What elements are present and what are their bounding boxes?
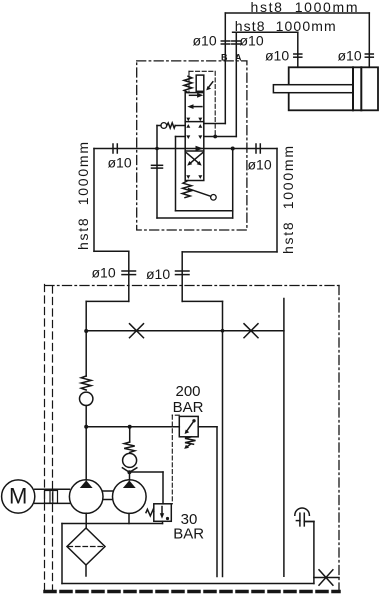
svg-text:M: M [9,484,27,509]
svg-text:ø10: ø10 [92,265,116,281]
svg-text:hst8 1000mm: hst8 1000mm [280,146,296,254]
svg-text:ø10: ø10 [193,33,217,49]
svg-text:hst8 1000mm: hst8 1000mm [235,18,336,34]
svg-text:ø10: ø10 [240,33,264,49]
svg-text:200: 200 [175,383,200,400]
svg-text:hst8 1000mm: hst8 1000mm [75,142,91,250]
svg-text:ø10: ø10 [146,266,170,282]
svg-text:ø10: ø10 [265,48,289,64]
svg-text:ø10: ø10 [248,157,272,173]
svg-text:BAR: BAR [173,526,204,543]
svg-text:A: A [235,53,242,63]
svg-text:B: B [221,53,228,63]
svg-text:ø10: ø10 [108,155,132,171]
svg-text:hst8 1000mm: hst8 1000mm [251,0,358,15]
svg-text:BAR: BAR [173,399,204,416]
svg-text:ø10: ø10 [338,48,362,64]
